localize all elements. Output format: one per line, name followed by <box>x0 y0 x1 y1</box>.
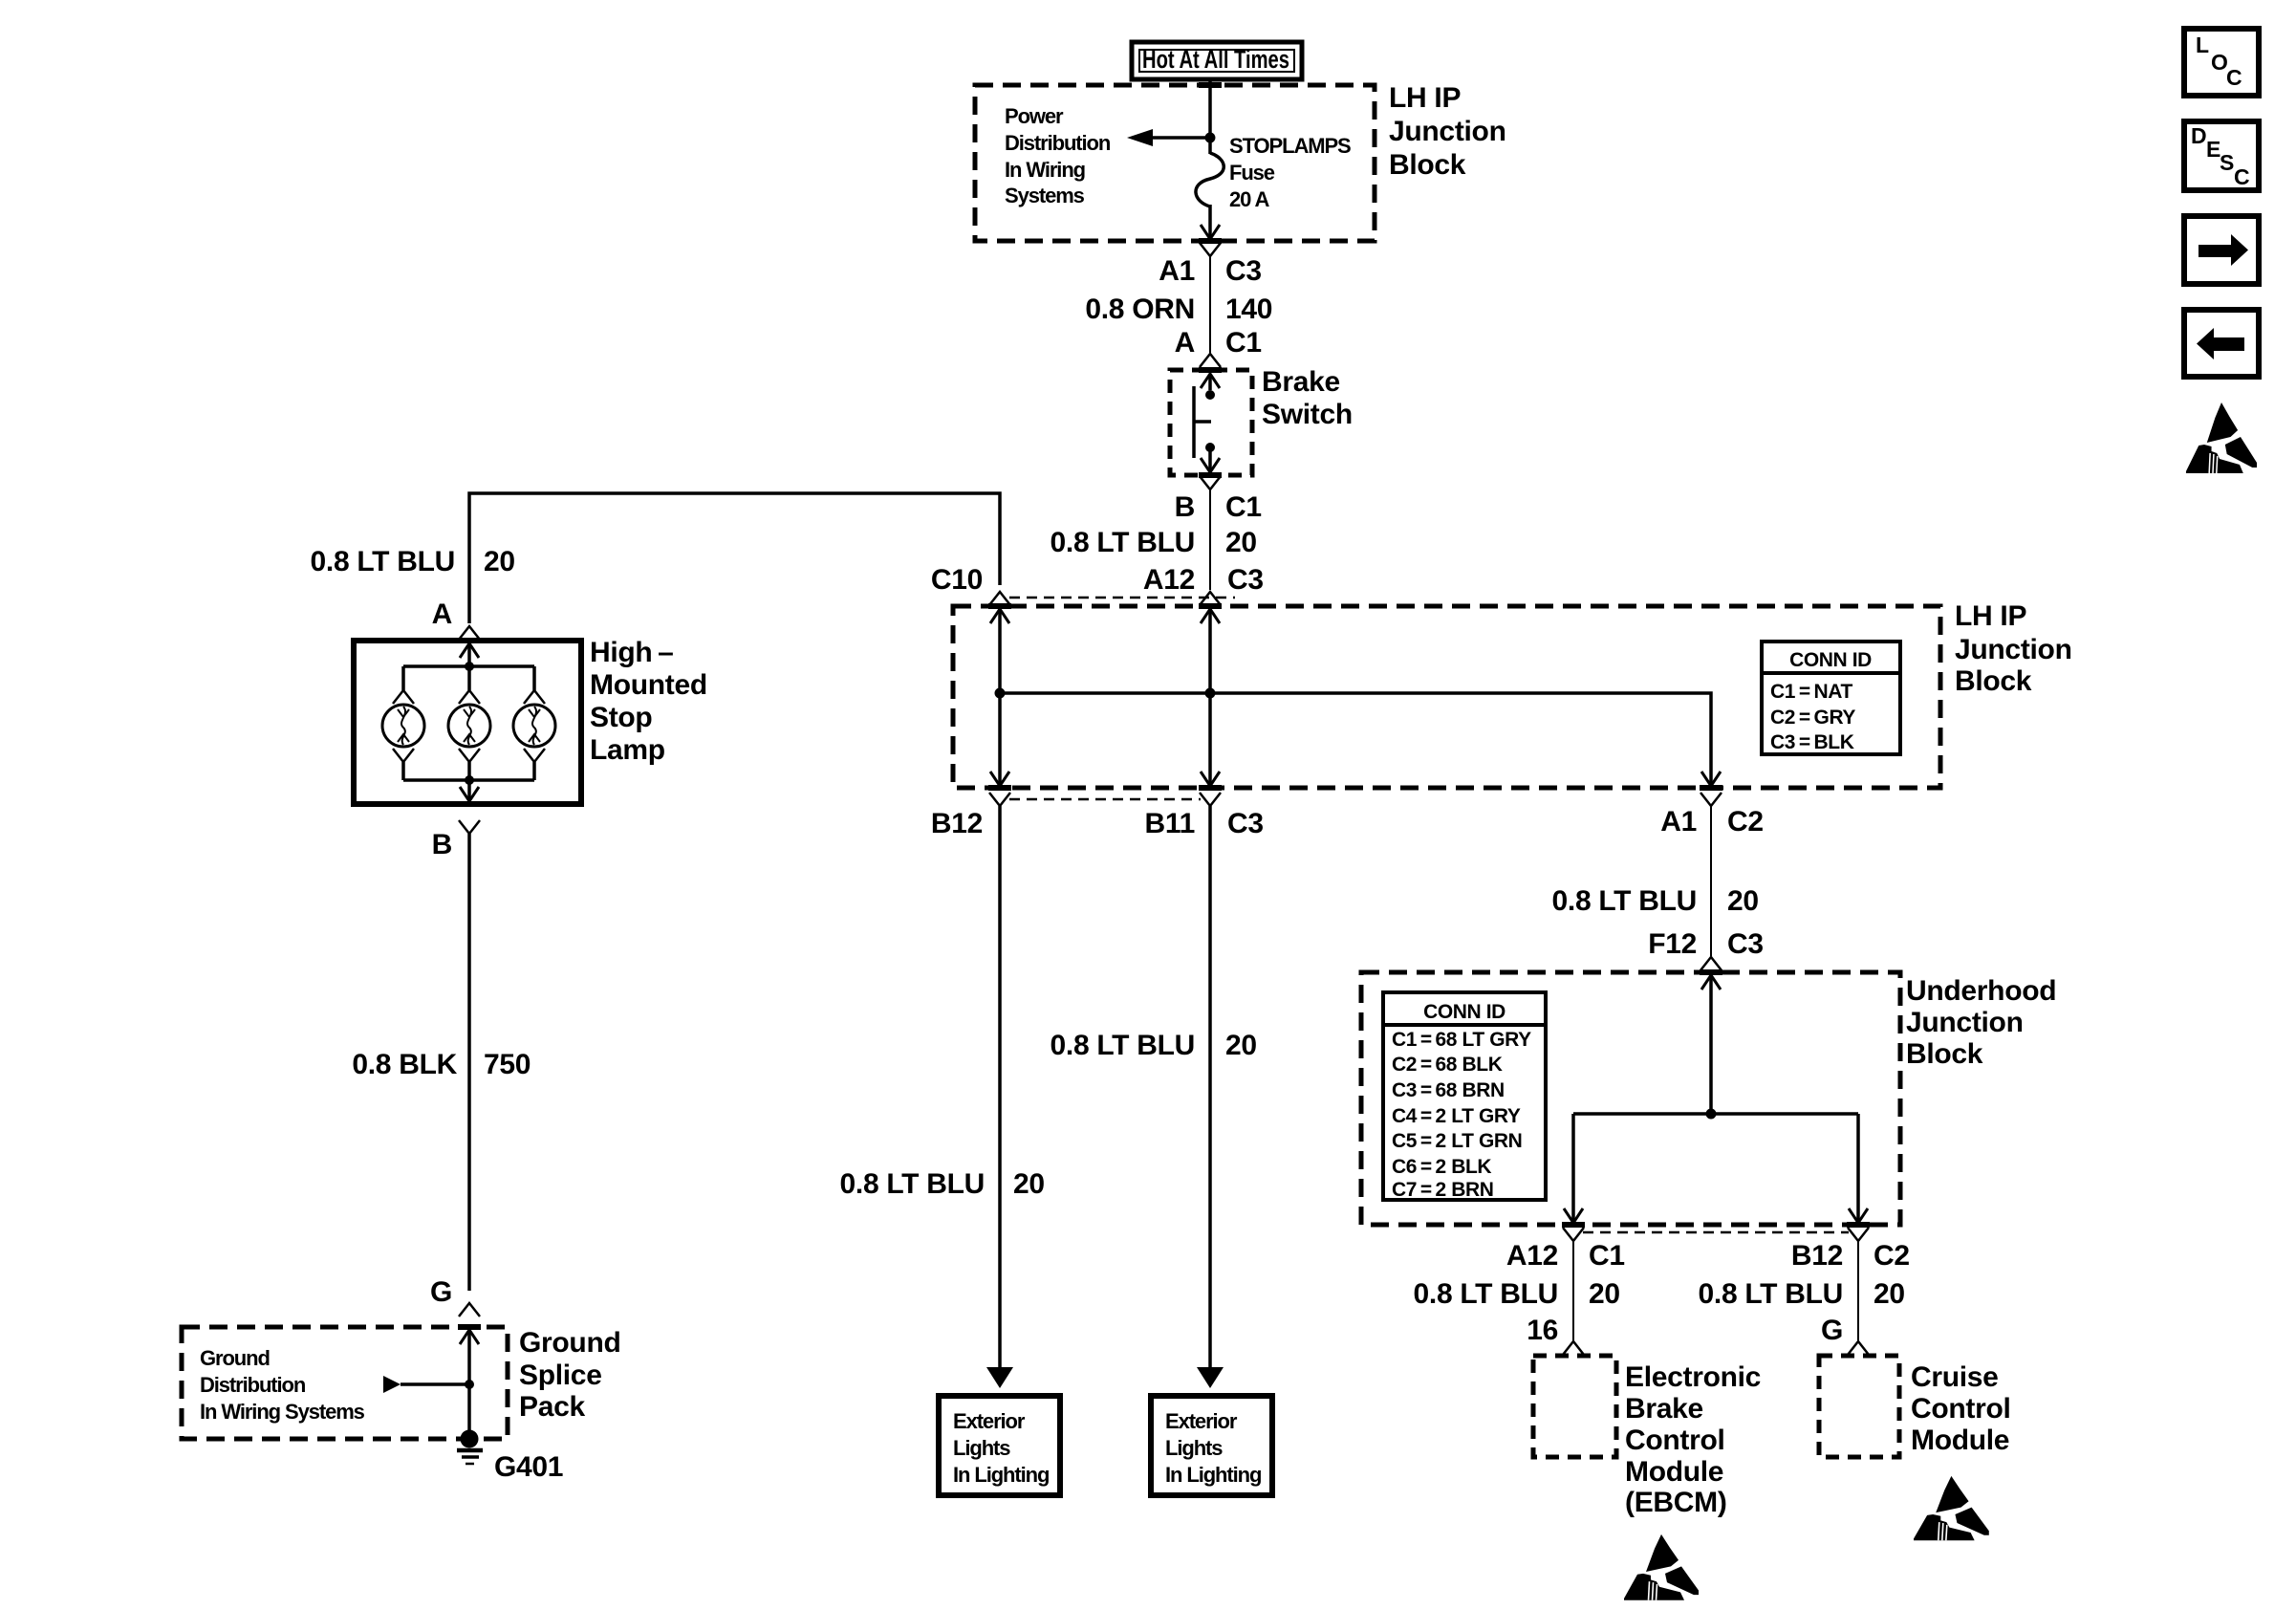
svg-text:C2 = 68 BLK: C2 = 68 BLK <box>1392 1054 1503 1076</box>
junction wire A12-B11 <box>1208 608 1212 786</box>
svg-text:0.8 LT BLU: 0.8 LT BLU <box>1051 527 1195 558</box>
svg-text:A: A <box>432 598 452 630</box>
underhood split bus <box>1573 1112 1858 1116</box>
wire B11 to right exterior lights <box>1208 806 1212 1369</box>
svg-text:(EBCM): (EBCM) <box>1625 1487 1727 1518</box>
svg-text:G: G <box>1821 1315 1843 1346</box>
svg-text:Power: Power <box>1005 104 1064 128</box>
svg-text:140: 140 <box>1225 294 1272 325</box>
junction wire C10-B12 <box>998 608 1002 786</box>
junction dot A12 bus <box>1205 688 1216 699</box>
right exterior lights box <box>1151 1396 1272 1495</box>
connector B/C1 below brake switch <box>1200 476 1221 490</box>
svg-text:C3: C3 <box>1227 564 1264 596</box>
svg-text:0.8 LT BLU: 0.8 LT BLU <box>1414 1278 1558 1310</box>
svg-text:In Wiring: In Wiring <box>1005 158 1085 182</box>
fuse STOPLAMPS 20 A symbol <box>1196 153 1224 207</box>
connector B11 below junction block <box>1200 793 1221 806</box>
svg-text:G: G <box>430 1276 452 1308</box>
lamp exit arrow <box>467 780 471 800</box>
svg-text:C: C <box>2226 65 2242 90</box>
svg-text:Block: Block <box>1389 149 1466 181</box>
connector A/C1 above brake switch <box>1200 354 1221 367</box>
wire B12 to left exterior lights <box>998 806 1002 1369</box>
svg-text:0.8 LT BLU: 0.8 LT BLU <box>1051 1030 1195 1061</box>
svg-text:Lamp: Lamp <box>590 734 665 766</box>
svg-text:High –: High – <box>590 637 674 668</box>
lamp top bus <box>403 664 534 668</box>
svg-text:Stop: Stop <box>590 702 652 733</box>
svg-text:Junction: Junction <box>1906 1007 2024 1038</box>
brake switch dashed box <box>1170 370 1252 475</box>
ground G401 symbol <box>461 1430 479 1448</box>
connector face line C3 (bottom) <box>1009 798 1201 801</box>
underhood junction block dashed box <box>1361 972 1900 1225</box>
svg-text:Underhood: Underhood <box>1906 975 2056 1007</box>
svg-text:Mounted: Mounted <box>590 669 707 701</box>
thin connector line A12 to 16 <box>1572 1241 1574 1340</box>
wire from Hot At All Times tag to fuse <box>1208 78 1212 154</box>
connector 16 into EBCM <box>1563 1341 1584 1355</box>
junction bus to A1 <box>1000 693 1711 786</box>
svg-text:C1: C1 <box>1225 327 1262 359</box>
lamp feed arrow <box>460 643 479 658</box>
underhood wire F12 down <box>1709 974 1713 1114</box>
connector B below stop lamp <box>459 820 480 834</box>
CONN ID table (underhood) <box>1383 992 1546 1200</box>
svg-text:C4 = 2 LT GRY: C4 = 2 LT GRY <box>1392 1105 1521 1127</box>
svg-text:G401: G401 <box>494 1451 563 1483</box>
svg-text:B11: B11 <box>1145 808 1195 839</box>
connector F12/C3 into underhood block <box>1700 957 1722 970</box>
svg-text:L: L <box>2196 33 2209 57</box>
connector A1/C2 below junction block <box>1700 793 1722 806</box>
svg-text:C1 = 68 LT GRY: C1 = 68 LT GRY <box>1392 1029 1531 1051</box>
svg-text:Module: Module <box>1911 1425 2009 1456</box>
wire fuse to block edge with down arrow <box>1208 205 1212 239</box>
svg-text:Module: Module <box>1625 1456 1723 1488</box>
svg-text:LH IP: LH IP <box>1389 82 1461 114</box>
svg-text:LH IP: LH IP <box>1955 600 2026 632</box>
svg-text:C10: C10 <box>931 564 983 596</box>
svg-text:Cruise: Cruise <box>1911 1361 1999 1393</box>
LH IP junction block (upper) dashed box <box>975 85 1375 241</box>
DESC icon box <box>2184 121 2259 190</box>
svg-text:B: B <box>432 829 452 860</box>
svg-text:In Wiring Systems: In Wiring Systems <box>200 1400 365 1424</box>
svg-text:Distribution: Distribution <box>1005 131 1111 155</box>
svg-text:Lights: Lights <box>1165 1436 1223 1460</box>
connector A1/C3 below upper block <box>1200 243 1221 256</box>
thin connector line B12 to G <box>1857 1241 1859 1340</box>
connector face line C3 (top) <box>1009 597 1235 599</box>
thin connector line B to A12 <box>1209 490 1211 590</box>
svg-text:A1: A1 <box>1660 806 1697 838</box>
svg-text:A1: A1 <box>1159 255 1195 287</box>
svg-text:C1: C1 <box>1225 491 1262 523</box>
CONN ID table (LH IP) <box>1762 642 1900 754</box>
connector A12/C1 below underhood <box>1563 1228 1584 1241</box>
brake switch contact lower <box>1205 443 1215 452</box>
previous page arrow icon <box>2184 310 2259 377</box>
svg-text:C5 = 2 LT GRN: C5 = 2 LT GRN <box>1392 1130 1522 1152</box>
svg-text:STOPLAMPS: STOPLAMPS <box>1229 134 1351 158</box>
svg-text:Brake: Brake <box>1625 1393 1703 1425</box>
cruise control module dashed box <box>1819 1356 1899 1457</box>
svg-text:C3: C3 <box>1225 255 1262 287</box>
lamp bottom bus <box>403 778 534 782</box>
stop lamp bulb 3 <box>532 666 536 690</box>
junction dot C10 bus <box>995 688 1006 699</box>
svg-text:C3 = 68 BRN: C3 = 68 BRN <box>1392 1079 1505 1101</box>
power feed tag Hot At All Times box <box>1132 42 1302 79</box>
connector B12 below junction block <box>989 793 1010 806</box>
connector G into ground splice pack <box>459 1303 480 1316</box>
svg-text:Lights: Lights <box>953 1436 1010 1460</box>
svg-text:C3: C3 <box>1227 808 1264 839</box>
svg-text:20: 20 <box>1874 1278 1905 1310</box>
EBCM dashed box <box>1533 1356 1616 1457</box>
svg-text:B12: B12 <box>931 808 983 839</box>
arrow from Ground Distribution <box>383 1376 401 1393</box>
svg-text:20: 20 <box>1727 885 1759 917</box>
svg-text:Brake: Brake <box>1262 366 1340 398</box>
svg-text:C6 = 2 BLK: C6 = 2 BLK <box>1392 1156 1491 1178</box>
brake switch contact upper <box>1201 374 1220 388</box>
svg-text:Control: Control <box>1911 1393 2011 1425</box>
connector A12/C3 into junction block <box>1200 592 1221 605</box>
svg-text:C2: C2 <box>1727 806 1764 838</box>
underhood junction dot <box>1706 1109 1717 1120</box>
svg-text:20: 20 <box>1013 1168 1045 1200</box>
ESD symbol top right <box>2186 402 2257 473</box>
ESD symbol below EBCM <box>1624 1534 1699 1600</box>
splice pack entry arrow <box>460 1330 479 1344</box>
svg-text:A12: A12 <box>1143 564 1195 596</box>
arrow to Power Distribution <box>1153 136 1210 140</box>
svg-text:Pack: Pack <box>519 1391 585 1423</box>
thin connector line A1 to F12 <box>1710 806 1712 956</box>
svg-text:Switch: Switch <box>1262 399 1353 430</box>
ground splice pack dashed box <box>182 1327 508 1439</box>
svg-text:C2: C2 <box>1874 1240 1910 1272</box>
thin connector line A1 to A <box>1209 256 1211 353</box>
svg-text:In Lighting: In Lighting <box>1165 1463 1261 1487</box>
svg-text:C1: C1 <box>1589 1240 1625 1272</box>
high mounted stop lamp box <box>354 641 581 804</box>
svg-text:Ground: Ground <box>519 1327 621 1359</box>
svg-text:Control: Control <box>1625 1425 1725 1456</box>
svg-text:Block: Block <box>1955 665 2032 697</box>
connector face line (underhood bottom) <box>1583 1231 1849 1234</box>
svg-text:0.8 LT BLU: 0.8 LT BLU <box>1699 1278 1843 1310</box>
svg-text:D: D <box>2191 123 2207 148</box>
splice junction dot <box>465 1380 474 1389</box>
svg-text:B12: B12 <box>1791 1240 1843 1272</box>
svg-text:Splice: Splice <box>519 1360 602 1391</box>
svg-text:0.8 BLK: 0.8 BLK <box>352 1049 457 1080</box>
svg-text:750: 750 <box>484 1049 531 1080</box>
svg-text:0.8 LT BLU: 0.8 LT BLU <box>1552 885 1697 917</box>
connector C10 into junction block <box>989 592 1010 605</box>
svg-text:Fuse: Fuse <box>1229 161 1275 185</box>
svg-text:Junction: Junction <box>1955 634 2072 665</box>
junction dot at fuse feed <box>1205 133 1216 143</box>
svg-text:C3: C3 <box>1727 928 1764 960</box>
svg-text:20: 20 <box>1225 1030 1257 1061</box>
next page arrow icon <box>2184 216 2259 284</box>
svg-text:Electronic: Electronic <box>1625 1361 1761 1393</box>
svg-text:Block: Block <box>1906 1038 1983 1070</box>
svg-text:C3 = BLK: C3 = BLK <box>1770 731 1854 753</box>
svg-text:C: C <box>2234 164 2250 189</box>
svg-text:Exterior: Exterior <box>953 1409 1026 1433</box>
left exterior lights box <box>939 1396 1060 1495</box>
svg-text:0.8 LT BLU: 0.8 LT BLU <box>840 1168 985 1200</box>
svg-text:16: 16 <box>1527 1315 1558 1346</box>
svg-text:20: 20 <box>1589 1278 1620 1310</box>
svg-text:B: B <box>1175 491 1195 523</box>
svg-text:In Lighting: In Lighting <box>953 1463 1049 1487</box>
connector A into stop lamp <box>459 626 480 640</box>
svg-text:Systems: Systems <box>1005 184 1085 207</box>
svg-text:F12: F12 <box>1648 928 1697 960</box>
svg-text:C1 = NAT: C1 = NAT <box>1770 681 1852 703</box>
svg-text:A: A <box>1175 327 1195 359</box>
svg-text:Distribution: Distribution <box>200 1373 306 1397</box>
svg-text:0.8 LT BLU: 0.8 LT BLU <box>311 546 455 577</box>
svg-text:20: 20 <box>1225 527 1257 558</box>
svg-text:S: S <box>2220 150 2234 175</box>
wire lamp to ground splice <box>467 834 471 1291</box>
svg-text:CONN ID: CONN ID <box>1789 649 1872 671</box>
brake switch lever <box>1192 386 1196 458</box>
stop lamp bulb 2 <box>467 666 471 690</box>
svg-text:Exterior: Exterior <box>1165 1409 1238 1433</box>
ESD symbol beside cruise module <box>1914 1476 1989 1540</box>
LH IP junction block (center) dashed box <box>953 606 1940 788</box>
stop lamp bulb 1 <box>401 666 405 690</box>
svg-text:A12: A12 <box>1506 1240 1558 1272</box>
svg-text:Ground: Ground <box>200 1346 270 1370</box>
svg-text:CONN ID: CONN ID <box>1423 1001 1505 1023</box>
svg-text:C2 = GRY: C2 = GRY <box>1770 707 1855 729</box>
svg-text:20: 20 <box>484 546 515 577</box>
LOC icon box <box>2184 29 2259 96</box>
wire brake-switch branch to lamp <box>469 493 1000 623</box>
connector B12/C2 below underhood <box>1848 1228 1869 1241</box>
svg-text:0.8 ORN: 0.8 ORN <box>1085 294 1195 325</box>
svg-text:Hot At All Times: Hot At All Times <box>1142 45 1289 74</box>
svg-text:Junction: Junction <box>1389 116 1506 147</box>
svg-text:C7 = 2 BRN: C7 = 2 BRN <box>1392 1179 1494 1201</box>
connector G into cruise module <box>1848 1341 1869 1355</box>
svg-text:20 A: 20 A <box>1229 187 1269 211</box>
